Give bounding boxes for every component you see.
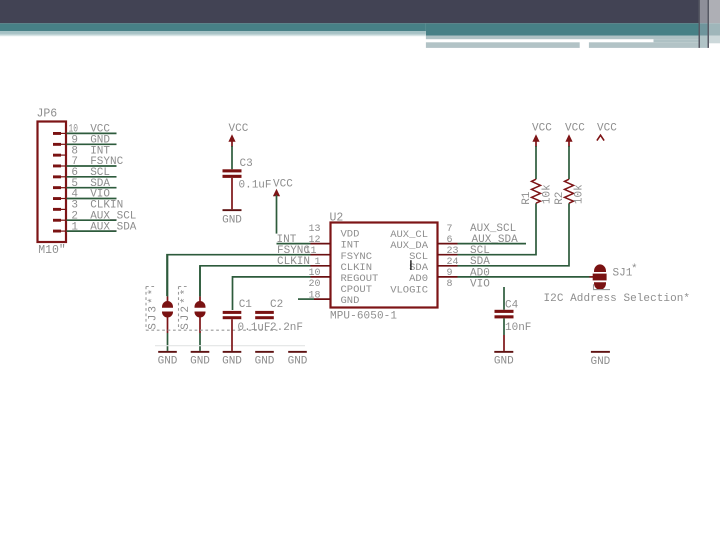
ground row: GND 5 <box>288 351 308 368</box>
connector JP6 <box>37 107 67 257</box>
svg-text:SJ2**: SJ2** <box>180 289 192 330</box>
svg-text:SJ3**: SJ3** <box>148 289 160 330</box>
svg-text:7: 7 <box>447 224 453 235</box>
svg-text:R1: R1 <box>521 191 533 205</box>
svg-text:VCC: VCC <box>532 122 552 134</box>
ground row: GND 2 <box>190 351 210 368</box>
svg-text:GND: GND <box>288 356 308 368</box>
svg-text:GND: GND <box>590 356 610 368</box>
svg-text:R2: R2 <box>554 192 566 205</box>
svg-text:JP6: JP6 <box>37 107 58 120</box>
svg-text:13: 13 <box>308 224 320 235</box>
solder jumper SJ2 <box>179 266 206 351</box>
power VCC arrowhead only (above SJ1) <box>597 122 617 140</box>
svg-text:10nF: 10nF <box>505 322 531 334</box>
ground row: GND 1 <box>158 351 178 368</box>
svg-text:VCC: VCC <box>565 122 585 134</box>
svg-text:VCC: VCC <box>229 123 249 135</box>
svg-text:VCC: VCC <box>597 122 617 134</box>
svg-text:AUX_SDA: AUX_SDA <box>90 221 137 233</box>
svg-text:VCC: VCC <box>273 179 293 191</box>
ground below C4 <box>494 351 514 368</box>
JP6 pin numbers <box>69 124 79 234</box>
svg-text:C4: C4 <box>505 299 519 311</box>
capacitor C4 <box>495 287 532 351</box>
svg-text:*: * <box>631 264 638 276</box>
U2 left pin names <box>341 229 379 308</box>
svg-text:10k: 10k <box>542 184 554 204</box>
svg-text:GND: GND <box>494 356 514 368</box>
svg-text:0.1uF: 0.1uF <box>238 322 271 334</box>
U2 right pin names <box>390 229 429 296</box>
wire CLKIN to pin 1 <box>200 256 311 296</box>
U2 left pin stubs <box>311 244 331 300</box>
wire AUX_SDA pin 6 <box>458 234 527 246</box>
svg-text:0.1uF: 0.1uF <box>239 179 272 191</box>
svg-text:GND: GND <box>190 356 210 368</box>
svg-text:MPU-6050-1: MPU-6050-1 <box>330 311 397 323</box>
power VCC above R2 <box>565 122 585 179</box>
wire AD0 pin 9 to SJ1 <box>458 267 595 279</box>
svg-text:M10": M10" <box>38 244 66 257</box>
svg-text:2.2nF: 2.2nF <box>270 322 303 334</box>
capacitor C3 <box>223 158 272 209</box>
wire GND pin 18 stub <box>298 298 314 300</box>
svg-text:GND: GND <box>255 356 275 368</box>
ground below SJ1 <box>590 351 610 368</box>
U2 right pin stubs <box>438 244 458 277</box>
svg-text:GND: GND <box>158 356 178 368</box>
power VCC above R1 <box>532 122 552 179</box>
svg-text:GND: GND <box>222 214 242 226</box>
svg-text:20: 20 <box>308 279 320 290</box>
JP6 pad stubs <box>61 133 67 231</box>
svg-text:GND: GND <box>222 356 242 368</box>
wire SDA pin 24 to R2 <box>458 203 570 268</box>
resistor R1 <box>521 179 554 205</box>
faint artifact line <box>155 345 305 347</box>
svg-text:1: 1 <box>71 221 78 233</box>
ground row: GND 4 <box>255 351 275 368</box>
header bars <box>0 0 720 48</box>
power VCC above U2 VDD <box>273 179 293 234</box>
dashed baseline under jumpers <box>146 329 278 331</box>
JP6 net labels <box>90 124 137 234</box>
svg-text:C3: C3 <box>240 158 253 170</box>
svg-text:GND: GND <box>341 295 360 307</box>
power VCC above C3 <box>228 123 248 170</box>
wire INT to pin 12 <box>277 234 311 246</box>
svg-text:8: 8 <box>447 279 453 290</box>
JP6 pads (pins 10..1) <box>53 132 61 233</box>
svg-text:10k: 10k <box>574 184 586 204</box>
text cursor artifact over SDA <box>410 260 411 270</box>
JP6 wire stubs <box>67 133 117 231</box>
svg-text:VLOGIC: VLOGIC <box>390 284 428 296</box>
wire REGOUT to C1 <box>233 277 311 310</box>
svg-text:SJ1: SJ1 <box>613 267 633 279</box>
wire SCL pin 23 to R1 <box>458 203 537 257</box>
capacitor C2 <box>255 299 303 334</box>
capacitor C1 <box>223 299 271 351</box>
ground row: GND 3 <box>222 351 242 368</box>
solder jumper SJ1 <box>593 264 638 290</box>
wire FSYNC to pin 11 <box>167 245 311 296</box>
U2 left pin numbers <box>304 224 320 301</box>
resistor R2 <box>554 179 586 205</box>
svg-text:I2C Address Selection*: I2C Address Selection* <box>544 293 691 305</box>
svg-text:C2: C2 <box>270 299 283 311</box>
svg-text:C1: C1 <box>239 299 253 311</box>
U2 right pin numbers <box>447 224 459 290</box>
svg-text:VIO: VIO <box>470 278 490 290</box>
solder jumper SJ3 <box>146 255 173 351</box>
IC U2 MPU-6050-1 <box>330 212 438 323</box>
ground below C3 <box>222 209 242 226</box>
